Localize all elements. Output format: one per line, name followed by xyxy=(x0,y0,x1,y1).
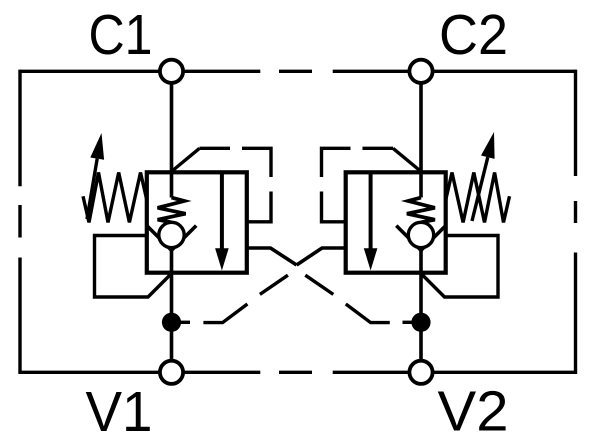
pilot elbow dashed (left valve) xyxy=(172,148,272,222)
bypass loop right xyxy=(421,236,498,298)
svg-text:V2: V2 xyxy=(438,379,509,442)
cross pilot line B (right valve to left junction) xyxy=(179,248,346,323)
bypass loop left xyxy=(95,236,172,298)
valve body right xyxy=(346,172,446,272)
check valve spring left xyxy=(158,198,186,223)
check valve ball left xyxy=(159,222,184,247)
check valve seat right xyxy=(396,226,445,251)
svg-text:C1: C1 xyxy=(89,3,153,67)
wire main line C2-V2 xyxy=(419,71,423,372)
envelope border bottom xyxy=(20,371,576,374)
port C2 xyxy=(409,60,432,83)
flow arrow right (down) xyxy=(364,172,378,270)
check valve seat left xyxy=(147,226,196,251)
envelope border left xyxy=(18,70,21,374)
envelope border top xyxy=(20,70,576,73)
check valve ball right xyxy=(408,222,433,247)
valve body left xyxy=(147,172,247,272)
relief spring right xyxy=(446,173,510,223)
junction dot right xyxy=(411,313,430,332)
cross pilot line A (left valve to right junction) xyxy=(247,248,414,323)
adjustment arrow right xyxy=(472,132,495,221)
svg-text:V1: V1 xyxy=(86,380,153,442)
envelope border right xyxy=(574,70,577,374)
junction dot left xyxy=(162,313,181,332)
svg-text:C2: C2 xyxy=(439,3,508,67)
adjustment arrow left xyxy=(87,133,104,219)
pilot elbow dashed (right valve) xyxy=(322,148,422,222)
port V2 xyxy=(409,361,432,384)
relief spring left xyxy=(83,173,147,223)
check valve spring right xyxy=(407,198,435,223)
wire main line C1-V1 xyxy=(170,71,174,372)
port C1 xyxy=(160,60,183,83)
port V1 xyxy=(160,361,183,384)
flow arrow left (down) xyxy=(215,172,229,270)
